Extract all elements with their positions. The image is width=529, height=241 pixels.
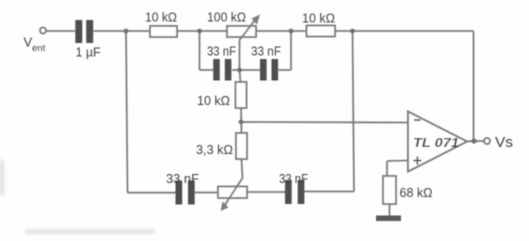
svg-text:10 kΩ: 10 kΩ [197,93,230,108]
svg-text:10 kΩ: 10 kΩ [302,11,335,26]
svg-text:33 nF: 33 nF [251,45,281,59]
svg-text:ent: ent [32,43,46,54]
svg-text:TL 071: TL 071 [413,136,459,150]
svg-text:3,3 kΩ: 3,3 kΩ [196,142,233,157]
svg-text:1 µF: 1 µF [76,45,101,60]
svg-text:68 kΩ: 68 kΩ [400,185,433,200]
svg-text:33 nF: 33 nF [279,171,308,186]
svg-text:Vs: Vs [495,134,513,151]
svg-text:100 kΩ: 100 kΩ [207,10,246,25]
svg-text:33 nF: 33 nF [166,171,199,186]
svg-text:10 kΩ: 10 kΩ [145,10,177,25]
svg-text:33 nF: 33 nF [207,45,236,59]
